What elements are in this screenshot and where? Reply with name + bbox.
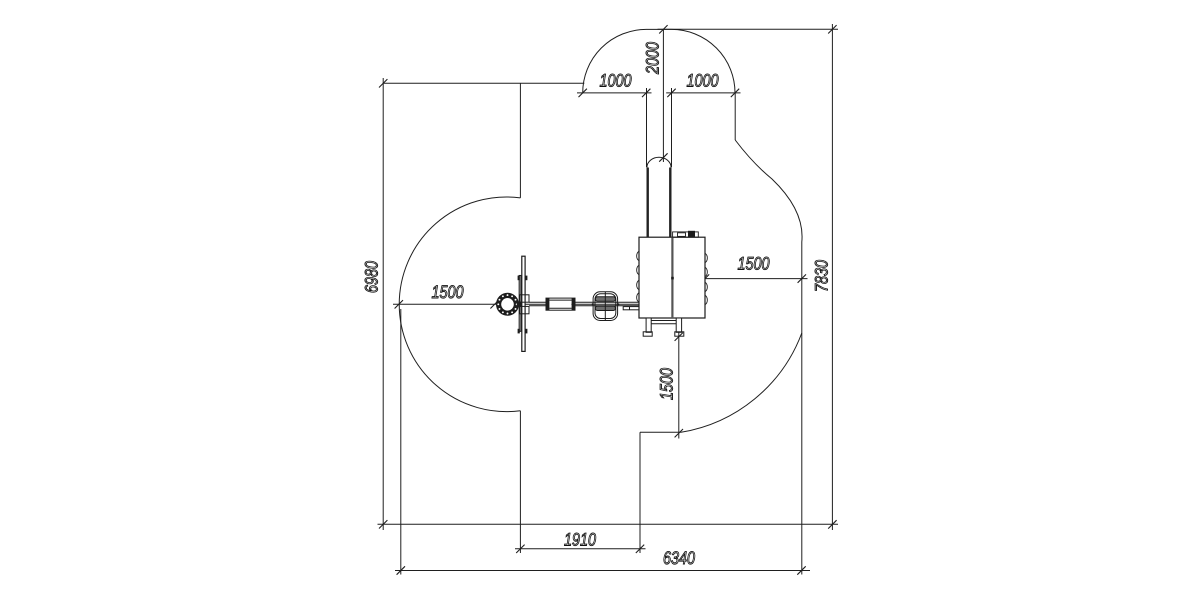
dimension 1500 right line xyxy=(700,278,808,280)
oblique tick marks xyxy=(379,25,837,575)
carousel blade long bar xyxy=(522,256,525,351)
dimension 6980 vertical line xyxy=(382,78,384,530)
dimension 1910 line xyxy=(515,548,646,550)
post top arc xyxy=(647,157,671,167)
dimension texts xyxy=(362,42,832,568)
svg-text:1000: 1000 xyxy=(686,71,718,91)
step under shaft xyxy=(623,307,639,310)
zone outline: dome (two arcs r=63.5 + flat top) xyxy=(583,29,735,93)
connector line of 6980/7830 xyxy=(378,523,839,525)
hub lower rect xyxy=(520,306,530,313)
dimension 1500 left + machine axis line xyxy=(393,303,639,305)
svg-text:1500: 1500 xyxy=(737,254,769,274)
axis dots xyxy=(547,303,620,305)
zone outline: notch right vertical + extension to 1910 xyxy=(639,432,641,553)
svg-text:7830: 7830 xyxy=(812,260,832,292)
dimension 1000 right line xyxy=(666,92,740,94)
dimension 2000 vertical line xyxy=(662,29,664,162)
zone outline: bottom-right horizontal notch edge xyxy=(640,431,681,433)
post column walls xyxy=(647,168,672,238)
shaft tube lines xyxy=(529,302,639,306)
svg-text:2000: 2000 xyxy=(643,42,663,75)
zone outline: lower-right arc xyxy=(681,333,802,432)
wheel assembly xyxy=(593,292,639,321)
top bracket on box xyxy=(673,232,699,237)
zone outline: upper-right bulge arc xyxy=(735,140,802,242)
gearbox box xyxy=(639,237,705,318)
svg-text:1500: 1500 xyxy=(431,282,463,302)
dimension 1000 left line xyxy=(577,92,652,94)
blade clamp blocks xyxy=(518,276,528,334)
dimension 6340 line xyxy=(395,570,810,572)
hub upper rect xyxy=(520,295,530,302)
svg-text:1500: 1500 xyxy=(657,368,677,400)
top line apex to 7830 xyxy=(658,28,839,30)
box edge bumps right xyxy=(705,253,707,263)
dimension 7830 vertical line xyxy=(831,24,833,530)
zone outline: right neck vertical xyxy=(734,93,736,140)
zone outline: left rectangle vertical upper xyxy=(519,83,521,198)
extension lines of 1000 dims down to post xyxy=(647,88,672,167)
box divider xyxy=(671,237,673,318)
zone outline: right straight edge + extension line to 6340 xyxy=(801,242,803,575)
zone outline: notch left vertical + extension to 1910 xyxy=(519,411,521,553)
flange ring xyxy=(496,293,519,316)
bottom frame xyxy=(643,318,684,336)
carousel blade short bar xyxy=(519,276,521,332)
zone outline: big left circle arc xyxy=(399,197,520,412)
coupling black caps xyxy=(546,298,575,310)
svg-text:6340: 6340 xyxy=(663,548,695,568)
hub center block xyxy=(517,302,522,307)
extension line 6340 left xyxy=(400,309,402,575)
svg-text:6980: 6980 xyxy=(362,261,382,293)
dimension 1500 bottom vertical line xyxy=(678,332,680,439)
box edge bumps left xyxy=(637,251,708,305)
coupling rect xyxy=(546,298,575,310)
svg-text:1910: 1910 xyxy=(564,530,596,550)
svg-text:1000: 1000 xyxy=(599,71,631,91)
zone outline: top-left horizontal edge xyxy=(383,82,584,84)
